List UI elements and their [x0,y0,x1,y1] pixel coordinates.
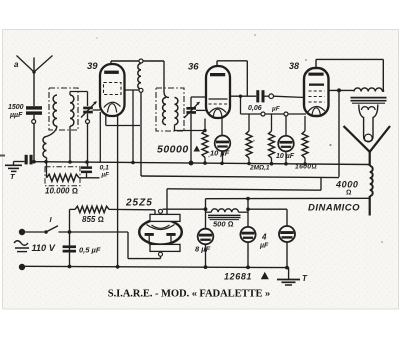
speaker driver [359,105,378,142]
wire screen drop [132,90,134,163]
tube V4 heater arcs [147,225,175,230]
junction bus A [270,162,274,166]
svg-text:0,5 µF: 0,5 µF [79,246,101,255]
svg-text:4: 4 [261,233,267,242]
wire to R855 [70,208,76,210]
svg-text:µF: µF [259,243,269,250]
label 1500 uuF [8,104,24,119]
capacitor C1 1500uuF [26,106,42,115]
svg-text:4000: 4000 [335,180,358,190]
wire R5 to bus [271,158,273,164]
resistor R4 2M [246,131,252,158]
wire R4 to bus [248,158,250,164]
bus bottom [25,266,289,267]
terminal V4 top [159,209,163,213]
tube V4 top box [150,214,180,221]
junction bus A [131,161,135,165]
capacitor C5 10uF [215,136,231,152]
svg-text:500 Ω: 500 Ω [213,220,234,229]
junction bottom 4 [246,265,250,269]
junction bus A [85,160,89,164]
wire stem R6 [304,116,306,131]
junction bottom 3 [204,265,208,269]
tube V2 plate bar [210,73,225,76]
wire C4 to bus [190,114,192,163]
terminal V4 bottom [159,252,163,256]
wire R3 to bus [204,158,206,164]
svg-text:38: 38 [289,61,299,71]
switch I [44,226,58,234]
wire screen V1 [125,89,139,91]
wire C4 top to V2 grid [191,97,206,107]
coil T1 secondary [70,95,74,126]
wire bus C to rectifier [166,189,168,215]
svg-text:36: 36 [188,62,199,73]
svg-text:110 V: 110 V [32,243,56,253]
wire T1 primary to L2 [47,126,58,137]
wire T2 to grid return [175,125,207,133]
wire plate drop to T3 [382,59,384,91]
label 4 uF [259,233,269,250]
wire to V3 grid [274,96,305,97]
capacitor C8 8uF [198,229,214,245]
variable capacitor C2 [81,102,97,118]
wire V4 filament return [128,232,161,259]
tube V1 grid dashes [104,83,122,95]
junction raw B+ [204,207,208,211]
bus C [167,189,321,190]
wire V3 screen [329,89,354,91]
svg-text:10.000 Ω: 10.000 Ω [45,187,78,196]
svg-text:1600Ω: 1600Ω [295,164,317,171]
field coil 4000 [370,166,373,196]
wire V3 top cap [315,59,317,68]
wire V2 plate run [217,60,247,62]
wire speaker B+ branch [248,209,287,226]
wire V3 plate run [316,58,383,60]
terminal on antenna wire [32,120,36,124]
variable capacitor C4 [184,102,200,118]
speaker cone [344,126,391,152]
transformer T3 primary [354,88,382,92]
junction bottom 2 [116,265,120,269]
junction bus A [303,162,307,166]
svg-text:S.I.A.R.E. - MOD. « FADALETTE: S.I.A.R.E. - MOD. « FADALETTE » [108,289,270,300]
wire C4 to V2 [196,109,206,111]
wire C6 to terminal [265,95,269,97]
transformer T1 box [49,88,78,130]
wire V2 top cap [216,61,218,66]
junction bus A [220,162,224,166]
label 0.06 uF [248,105,281,113]
wire V2 cathode to R3 [204,119,206,131]
junction bus A [284,162,288,166]
svg-text:DINAMICO: DINAMICO [308,203,360,214]
tube V3 screen bar [309,84,324,86]
terminal on grid wire [86,120,90,124]
capacitor C0 antenna series [25,155,33,165]
label 12681 [224,272,269,282]
junction bus A [203,161,207,165]
tube V4 plate right [166,233,175,244]
terminal L3 top [139,59,143,63]
tube V1 39 envelope [100,64,125,116]
wire antenna down [33,72,35,106]
wire speaker to field coil [369,152,371,166]
resistor R3 50000 [202,131,208,158]
bus A ground rail [34,162,370,165]
wire plate to T2 [164,61,169,98]
resistor R6 1600 [302,131,308,158]
wire V4 cathode out [163,208,206,210]
plug terminal top [19,229,25,235]
svg-text:0,06: 0,06 [248,105,262,112]
svg-text:a: a [14,60,19,69]
transformer T3 core [351,98,387,104]
tube V1 plate bar [104,71,119,74]
wire V1 top cap [110,61,112,64]
tube V2 grid line [209,98,228,100]
svg-text:39: 39 [87,61,98,72]
svg-text:25Z5: 25Z5 [125,198,153,209]
capacitor C6 0.06uF [256,90,264,102]
wire L3 to bus B [140,92,142,176]
wire switch to node [59,231,129,233]
svg-text:µµF: µµF [9,112,23,119]
junction switch node [68,230,72,234]
transformer T3 right lead [382,90,383,92]
wire B+ mid drop [247,199,249,267]
svg-text:1500: 1500 [8,104,24,111]
capacitor C3 0.1uF [81,166,92,177]
wire L2 to bus [46,158,48,162]
terminal L3 bottom [139,88,143,92]
wire C2 down to C3 [87,114,89,167]
wire heater string V1 [117,114,119,267]
capacitor C7 10uF [278,116,294,151]
wire screen to bus B [338,90,340,176]
tube V3 plate bar [308,73,323,76]
wire C0 to bus A [33,161,36,163]
resistor R5 [269,131,275,158]
svg-text:Ω: Ω [346,190,351,197]
wire stem R5 [271,114,273,131]
svg-text:µF: µF [101,172,110,179]
wire V1 pin left to bus [99,112,101,162]
junction bottom 5 [285,266,289,270]
tube V1 cathode [104,102,121,107]
wire B+ left drop [205,199,207,267]
wire R855 to heater [109,208,155,210]
label AC DC symbol [14,241,29,252]
terminal grid V3 [269,94,274,99]
wire R2 stem [46,162,48,178]
label 0.1 uF [100,165,110,179]
bus B [141,176,339,178]
junction screen [337,88,341,92]
bus D [206,197,370,199]
wire bus C to bus B [320,177,322,190]
wire C1 to bus [33,115,35,162]
junction bus A [68,160,72,164]
coil L2 antenna choke [43,137,46,158]
terminal grid bus 2 [284,112,288,116]
wire C7 to bus [285,151,287,163]
svg-text:10 µF: 10 µF [210,149,230,158]
svg-text:0,1: 0,1 [100,165,110,172]
ground T left [5,162,22,172]
wire R6 to bus [304,158,306,164]
wire plug top [25,231,44,233]
junction bus A [44,160,48,164]
wire T1 secondary to bus [69,126,71,162]
junction bus A big [189,161,194,166]
coil L3 plate choke [138,64,141,90]
junction choke right [246,207,250,211]
svg-text:8 µF: 8 µF [195,245,211,254]
svg-text:50000: 50000 [157,144,189,156]
transformer T3 secondary [362,107,376,110]
svg-text:12681: 12681 [224,272,252,282]
tube V3 grid dashes [309,91,325,102]
wire field coil bottom [369,196,371,216]
capacitor C9 4uF [240,227,255,242]
svg-text:µF: µF [271,106,281,113]
antenna [17,56,53,74]
choke 500 winding [206,209,249,212]
svg-text:855 Ω: 855 Ω [82,215,104,224]
ground right [277,280,300,286]
grid bus wire [241,113,307,115]
junction choke right top [246,197,250,201]
coil T2 secondary [175,98,178,125]
resistor R2 10000 [47,174,80,181]
tube V4 plate left [145,233,154,244]
junction bottom 1 [68,265,72,269]
wire 110 node up [69,209,71,266]
coil T1 primary [53,95,57,126]
choke 500 core [208,215,241,219]
tube V2 grid dashes [209,103,228,105]
wire C2 to V1 grid [93,109,100,111]
capacitor C10 8uF [279,226,295,242]
wire T1 secondary top to C2 [70,92,88,107]
wire C6 down [240,96,242,114]
wire R2 right [79,177,100,179]
terminal grid bus 1 [261,112,265,116]
transformer T2 box [156,88,184,131]
wire C5 to bus [222,151,224,163]
junction plate line [239,95,242,98]
specks [0,34,383,243]
wire to ground right [288,268,290,279]
tube V3 38 envelope [304,68,329,116]
wire V2 to C5 [221,117,223,136]
wire plate top run [111,60,164,62]
junction bus A [32,160,36,164]
wire C10 to bus [286,242,288,268]
resistor R7 855 [75,206,109,212]
tube V3 cathode [308,106,325,112]
wire V1 pin to L bend [106,114,140,126]
svg-text:2MΩ,1: 2MΩ,1 [249,165,270,172]
resistor R2 box [45,167,80,186]
wire stem R4 [248,114,250,131]
capacitor C11 0.5uF [63,245,76,252]
label 4000 [335,180,358,197]
wire heater entry [154,210,156,215]
coil T2 primary [163,98,166,125]
tube V2 cathode [209,108,226,114]
wire V2 plate to C6 [230,95,256,97]
tube V2 36 envelope [206,66,230,118]
tube V4 bottom box [150,244,180,251]
junction bus A [247,162,251,166]
wire plate drop right [246,61,248,96]
wire ground to C0 [14,161,25,163]
plug terminal bottom [19,264,25,270]
svg-text:10 µF: 10 µF [276,153,295,160]
tube V4 25Z5 envelope [139,219,182,244]
label triangle R3 [194,146,201,152]
